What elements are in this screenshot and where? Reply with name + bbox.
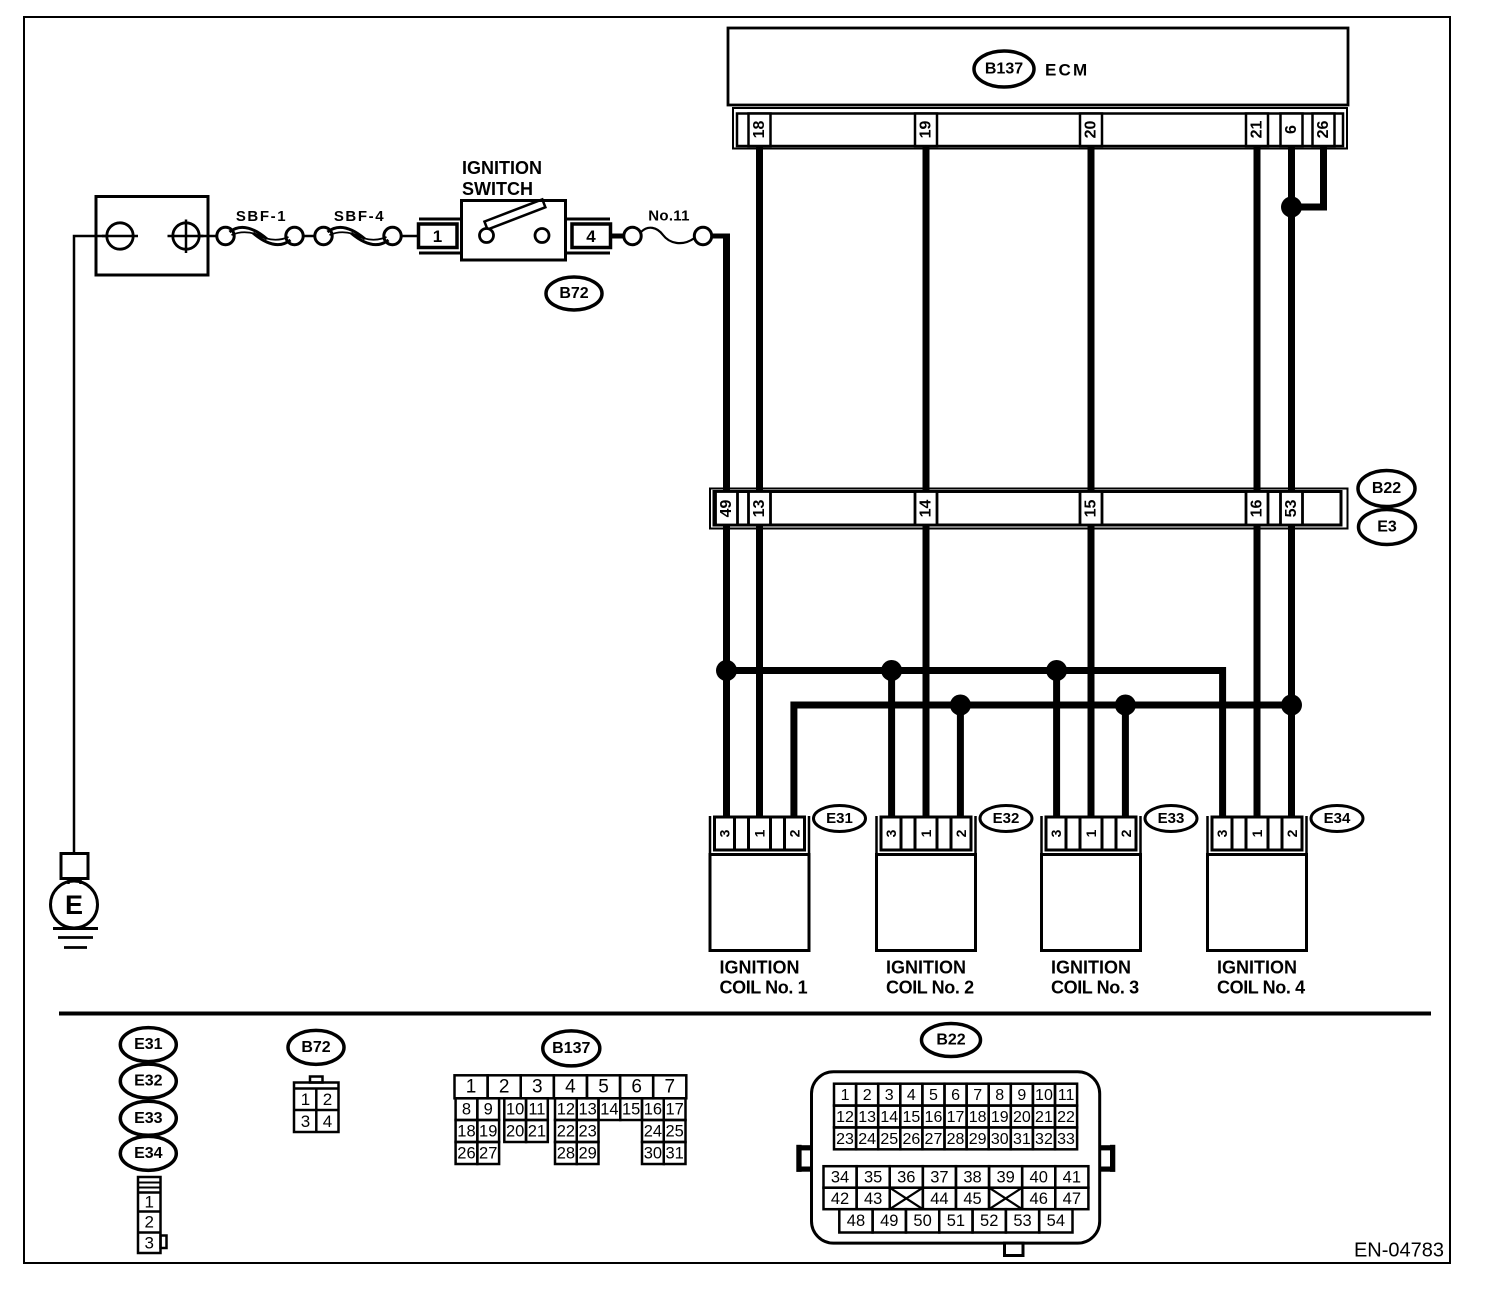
ground E [51, 854, 99, 948]
ECM pin 21 [1246, 114, 1268, 147]
svg-text:E31: E31 [826, 810, 853, 827]
svg-text:B72: B72 [301, 1039, 330, 1056]
B22 connector face pinout [796, 1072, 1115, 1256]
ECM connector strip (B137) [733, 108, 1347, 149]
svg-text:11: 11 [1058, 1087, 1075, 1104]
svg-text:24: 24 [644, 1122, 662, 1140]
ignition coil No.3 [1042, 816, 1141, 998]
svg-text:E31: E31 [134, 1036, 163, 1053]
svg-text:14: 14 [918, 500, 935, 518]
wire pin 13 to coil 1 pin 1 [756, 525, 763, 820]
svg-text:3: 3 [717, 829, 733, 837]
svg-text:25: 25 [665, 1122, 683, 1140]
junction [1281, 695, 1302, 716]
connector label B72 (legend) [288, 1030, 344, 1064]
svg-text:6: 6 [951, 1087, 960, 1104]
wire ECM pin 21 down [1254, 146, 1261, 490]
svg-text:COIL No. 4: COIL No. 4 [1217, 978, 1305, 998]
svg-text:B72: B72 [559, 285, 588, 302]
svg-text:44: 44 [930, 1190, 948, 1208]
svg-text:2: 2 [863, 1087, 872, 1104]
svg-text:26: 26 [902, 1131, 920, 1148]
svg-text:53: 53 [1283, 500, 1300, 518]
branch to coil 2 pin 3 [888, 671, 895, 821]
svg-text:2: 2 [787, 829, 803, 837]
ECM pin 20 [1080, 114, 1102, 147]
svg-text:IGNITION: IGNITION [720, 958, 800, 978]
svg-text:1: 1 [841, 1087, 850, 1104]
svg-text:7: 7 [664, 1077, 675, 1098]
svg-text:48: 48 [847, 1212, 865, 1230]
svg-text:29: 29 [578, 1144, 596, 1162]
svg-text:18: 18 [457, 1122, 475, 1140]
svg-text:B22: B22 [936, 1032, 965, 1049]
svg-text:4: 4 [586, 227, 596, 246]
wire pin 14 to coil 2 pin 1 [923, 525, 930, 820]
fuse No.11 [624, 208, 712, 245]
svg-text:4: 4 [323, 1112, 332, 1131]
svg-text:E32: E32 [134, 1073, 163, 1090]
svg-text:34: 34 [831, 1169, 849, 1187]
ECM U1 [728, 28, 1348, 105]
svg-text:No.11: No.11 [648, 208, 690, 225]
branch to coil 3 pin 2 [1122, 705, 1129, 820]
svg-text:4: 4 [565, 1077, 576, 1098]
svg-text:26: 26 [457, 1144, 475, 1162]
connector pin 1 (B72) [419, 219, 462, 253]
svg-text:SBF-1: SBF-1 [236, 208, 287, 225]
wire pin 15 to coil 3 pin 1 [1088, 525, 1095, 820]
svg-text:12: 12 [836, 1109, 854, 1126]
strip pin 13 [749, 492, 771, 526]
strip pin 53 [1281, 492, 1303, 526]
svg-text:4: 4 [907, 1087, 916, 1104]
svg-text:18: 18 [969, 1109, 987, 1126]
svg-text:51: 51 [947, 1212, 965, 1230]
svg-text:COIL No. 2: COIL No. 2 [886, 978, 974, 998]
wire ECM pin 6 down [1288, 146, 1295, 490]
junction pins 6/26 [1281, 197, 1302, 218]
ECM pin 6 [1281, 114, 1303, 147]
svg-text:2: 2 [1284, 829, 1300, 837]
battery [96, 197, 208, 276]
svg-text:30: 30 [644, 1144, 662, 1162]
svg-text:1: 1 [752, 829, 768, 837]
svg-text:IGNITION: IGNITION [462, 158, 542, 178]
B72 connector face pinout [294, 1077, 339, 1133]
junction [950, 695, 971, 716]
svg-text:2: 2 [1118, 829, 1134, 837]
svg-text:B137: B137 [985, 61, 1023, 78]
connector label E33 (legend) [120, 1101, 176, 1135]
svg-text:3: 3 [144, 1234, 153, 1253]
svg-text:1: 1 [301, 1090, 310, 1109]
wire [303, 235, 315, 238]
svg-text:33: 33 [1057, 1131, 1075, 1148]
svg-text:47: 47 [1063, 1190, 1081, 1208]
connector label E31 [814, 806, 866, 832]
wire ECM pin 26 jog to pin 6 wire [1292, 146, 1324, 207]
svg-text:50: 50 [913, 1212, 931, 1230]
lower bus wire [794, 705, 1292, 820]
ignition switch SW [462, 158, 566, 260]
svg-text:SBF-4: SBF-4 [334, 208, 385, 225]
fusible link SBF-4 [315, 208, 401, 245]
svg-text:3: 3 [1214, 829, 1230, 837]
wire [401, 235, 418, 238]
junction [1115, 695, 1136, 716]
svg-text:17: 17 [665, 1101, 683, 1119]
svg-text:13: 13 [751, 500, 768, 518]
svg-text:31: 31 [665, 1144, 683, 1162]
wire ECM pin 18 down [756, 146, 763, 490]
svg-text:20: 20 [1083, 121, 1100, 139]
svg-text:24: 24 [858, 1131, 876, 1148]
svg-text:8: 8 [462, 1101, 471, 1119]
svg-text:E32: E32 [993, 810, 1020, 827]
svg-text:SWITCH: SWITCH [462, 179, 533, 199]
svg-text:25: 25 [880, 1131, 898, 1148]
svg-text:EN-04783: EN-04783 [1354, 1240, 1444, 1262]
wire [611, 234, 625, 239]
svg-text:IGNITION: IGNITION [1051, 958, 1131, 978]
svg-text:36: 36 [897, 1169, 915, 1187]
svg-text:5: 5 [598, 1077, 609, 1098]
ECM pin 26 [1313, 114, 1335, 147]
svg-text:1: 1 [1083, 829, 1099, 837]
connector label E3 [1359, 510, 1416, 545]
wire [199, 235, 217, 238]
svg-text:38: 38 [963, 1169, 981, 1187]
svg-text:42: 42 [831, 1190, 849, 1208]
ignition coil No.1 [710, 816, 809, 998]
svg-text:E: E [65, 890, 83, 920]
connector label E31 (legend) [120, 1028, 176, 1062]
junction [716, 660, 737, 681]
svg-text:20: 20 [506, 1122, 524, 1140]
svg-text:49: 49 [880, 1212, 898, 1230]
wire ECM pin 20 down [1088, 146, 1095, 490]
svg-text:21: 21 [1035, 1109, 1053, 1126]
strip pin 16 [1246, 492, 1268, 526]
svg-text:1: 1 [466, 1077, 477, 1098]
svg-text:2: 2 [499, 1077, 510, 1098]
svg-text:15: 15 [622, 1101, 640, 1119]
svg-text:19: 19 [991, 1109, 1009, 1126]
ECM pin 18 [749, 114, 771, 147]
svg-text:3: 3 [301, 1112, 310, 1131]
svg-text:COIL No. 3: COIL No. 3 [1051, 978, 1139, 998]
svg-text:20: 20 [1013, 1109, 1031, 1126]
upper feed bus wire [727, 671, 1223, 821]
svg-text:3: 3 [885, 1087, 894, 1104]
ECM pin 19 [915, 114, 937, 147]
svg-text:5: 5 [929, 1087, 938, 1104]
svg-text:3: 3 [532, 1077, 543, 1098]
svg-text:14: 14 [880, 1109, 898, 1126]
svg-text:1: 1 [144, 1193, 153, 1212]
section separator line [59, 1012, 1431, 1016]
connector label E32 [980, 806, 1032, 832]
svg-text:E34: E34 [134, 1145, 163, 1162]
connector label B72 [546, 277, 602, 310]
strip pin 14 [915, 492, 937, 526]
svg-text:28: 28 [557, 1144, 575, 1162]
svg-text:ECM: ECM [1045, 61, 1089, 80]
wire pin 53 to coil 4 pin 2 [1288, 525, 1295, 820]
svg-text:29: 29 [969, 1131, 987, 1148]
branch to coil 2 pin 2 [957, 705, 964, 820]
svg-text:15: 15 [1083, 500, 1100, 518]
svg-text:16: 16 [644, 1101, 662, 1119]
svg-text:13: 13 [858, 1109, 876, 1126]
wire ECM pin 19 down [923, 146, 930, 490]
wire battery negative to ground [74, 236, 107, 854]
wire ignition feed to pin 49 [712, 234, 730, 239]
svg-text:53: 53 [1013, 1212, 1031, 1230]
svg-text:52: 52 [980, 1212, 998, 1230]
svg-text:IGNITION: IGNITION [1217, 958, 1297, 978]
B137 connector face pinout [455, 1075, 687, 1164]
svg-text:1: 1 [433, 227, 442, 246]
svg-text:10: 10 [506, 1101, 524, 1119]
junction [1046, 660, 1067, 681]
svg-text:E33: E33 [134, 1110, 163, 1127]
coil connector face pinout (E31-E34) [138, 1177, 167, 1253]
connector label E34 (legend) [120, 1136, 176, 1170]
svg-text:3: 3 [883, 829, 899, 837]
svg-text:30: 30 [991, 1131, 1009, 1148]
svg-text:41: 41 [1063, 1169, 1081, 1187]
svg-text:10: 10 [1035, 1087, 1053, 1104]
svg-text:27: 27 [479, 1144, 497, 1162]
ignition coil No.4 [1208, 816, 1307, 998]
svg-text:1: 1 [1249, 829, 1265, 837]
svg-text:46: 46 [1030, 1190, 1048, 1208]
svg-text:9: 9 [484, 1101, 493, 1119]
svg-text:32: 32 [1035, 1131, 1053, 1148]
branch to coil 3 pin 3 [1053, 671, 1060, 821]
wire pin 16 to coil 4 pin 1 [1254, 525, 1261, 820]
wire pin 49 to coil feed bus [723, 525, 730, 820]
strip pin 15 [1080, 492, 1102, 526]
svg-text:35: 35 [864, 1169, 882, 1187]
svg-text:19: 19 [918, 121, 935, 139]
svg-text:2: 2 [953, 829, 969, 837]
svg-text:6: 6 [631, 1077, 642, 1098]
svg-text:12: 12 [557, 1101, 575, 1119]
svg-text:43: 43 [864, 1190, 882, 1208]
svg-text:IGNITION: IGNITION [886, 958, 966, 978]
svg-text:3: 3 [1048, 829, 1064, 837]
svg-text:16: 16 [925, 1109, 943, 1126]
svg-text:E33: E33 [1158, 810, 1185, 827]
svg-text:26: 26 [1315, 121, 1332, 139]
svg-text:54: 54 [1047, 1212, 1065, 1230]
svg-text:28: 28 [947, 1131, 965, 1148]
svg-text:22: 22 [1057, 1109, 1075, 1126]
junction [881, 660, 902, 681]
svg-text:COIL No. 1: COIL No. 1 [720, 978, 808, 998]
svg-text:31: 31 [1013, 1131, 1031, 1148]
svg-text:39: 39 [996, 1169, 1014, 1187]
svg-text:18: 18 [751, 121, 768, 139]
svg-text:8: 8 [995, 1087, 1004, 1104]
svg-text:13: 13 [578, 1101, 596, 1119]
svg-text:21: 21 [1249, 121, 1266, 139]
svg-text:B22: B22 [1372, 480, 1401, 497]
svg-text:37: 37 [930, 1169, 948, 1187]
svg-text:45: 45 [963, 1190, 981, 1208]
connector pin 4 (B72) [566, 219, 611, 253]
connector label B22 [1358, 471, 1415, 507]
svg-text:1: 1 [918, 829, 934, 837]
svg-text:21: 21 [528, 1122, 546, 1140]
connector label B137 (legend) [543, 1031, 600, 1066]
connector label E33 [1145, 806, 1197, 832]
svg-text:E34: E34 [1324, 810, 1351, 827]
svg-text:E3: E3 [1377, 519, 1397, 536]
connector label E34 [1311, 806, 1363, 832]
svg-text:17: 17 [947, 1109, 965, 1126]
svg-text:6: 6 [1283, 125, 1300, 134]
bulkhead connector strip (B22/E3) [710, 489, 1348, 529]
svg-text:15: 15 [902, 1109, 920, 1126]
svg-text:11: 11 [528, 1101, 545, 1119]
connector label B22 (legend) [922, 1024, 981, 1057]
strip pin 49 [716, 492, 738, 526]
ignition coil No.2 [877, 816, 976, 998]
connector label E32 (legend) [120, 1064, 176, 1098]
svg-text:23: 23 [836, 1131, 854, 1148]
svg-text:40: 40 [1030, 1169, 1048, 1187]
svg-text:19: 19 [479, 1122, 497, 1140]
svg-text:2: 2 [323, 1090, 332, 1109]
svg-text:49: 49 [718, 500, 735, 518]
svg-text:2: 2 [144, 1213, 153, 1232]
svg-text:14: 14 [600, 1101, 618, 1119]
svg-text:23: 23 [578, 1122, 596, 1140]
svg-text:9: 9 [1017, 1087, 1026, 1104]
svg-text:B137: B137 [552, 1040, 590, 1057]
svg-text:16: 16 [1249, 500, 1266, 518]
fusible link SBF-1 [217, 208, 303, 245]
svg-text:7: 7 [973, 1087, 982, 1104]
svg-text:27: 27 [925, 1131, 943, 1148]
svg-text:22: 22 [557, 1122, 575, 1140]
